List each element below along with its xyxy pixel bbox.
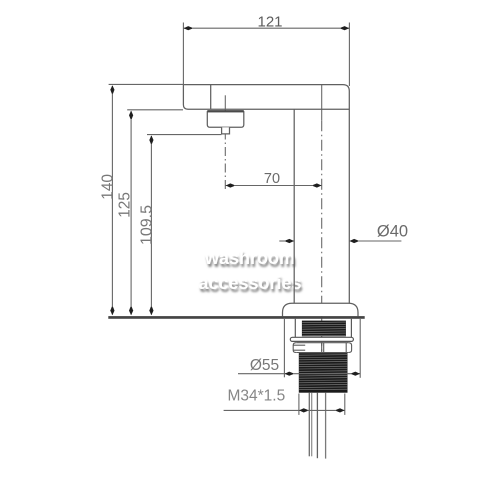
svg-text:140: 140 [99,174,116,200]
svg-text:121: 121 [257,14,282,31]
svg-text:Ø55: Ø55 [250,357,279,374]
svg-text:109.5: 109.5 [138,205,155,245]
svg-text:Ø40: Ø40 [377,222,408,240]
svg-text:washroom: washroom [204,248,295,268]
svg-text:M34*1.5: M34*1.5 [228,388,286,405]
svg-text:70: 70 [264,171,280,187]
svg-text:accessories: accessories [198,273,301,293]
svg-text:125: 125 [116,192,133,218]
